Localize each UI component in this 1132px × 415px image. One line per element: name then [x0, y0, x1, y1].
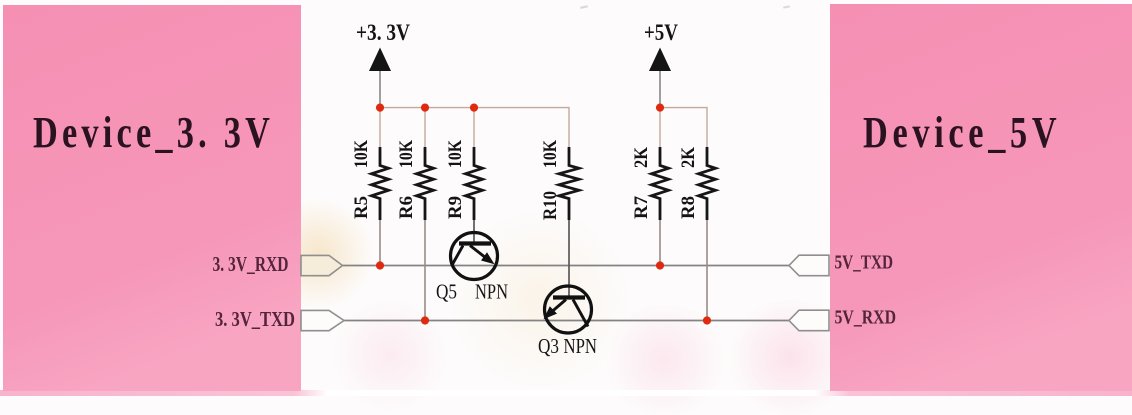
svg-text:R7: R7: [631, 196, 652, 219]
svg-text:10K: 10K: [351, 140, 372, 168]
svg-text:10K: 10K: [445, 140, 466, 168]
svg-text:2K: 2K: [631, 147, 652, 168]
svg-text:3. 3V_RXD: 3. 3V_RXD: [213, 252, 289, 276]
svg-text:10K: 10K: [540, 140, 561, 168]
svg-text:5V_RXD: 5V_RXD: [835, 307, 897, 329]
svg-text:+3. 3V: +3. 3V: [356, 20, 410, 45]
svg-text:R8: R8: [678, 196, 699, 219]
svg-text:Device_5V: Device_5V: [863, 108, 1061, 157]
svg-text:R10: R10: [540, 191, 561, 220]
svg-text:Q5: Q5: [436, 280, 457, 304]
svg-text:+5V: +5V: [644, 20, 678, 45]
svg-text:Q3: Q3: [538, 334, 559, 358]
svg-text:NPN: NPN: [564, 334, 598, 358]
svg-text:Device_3. 3V: Device_3. 3V: [33, 108, 274, 157]
svg-text:10K: 10K: [396, 140, 417, 168]
svg-text:2K: 2K: [678, 147, 699, 168]
svg-text:3. 3V_TXD: 3. 3V_TXD: [215, 307, 295, 331]
svg-text:5V_TXD: 5V_TXD: [835, 252, 894, 274]
svg-text:R9: R9: [445, 196, 466, 219]
svg-text:R5: R5: [351, 196, 372, 219]
svg-text:R6: R6: [396, 196, 417, 219]
svg-text:NPN: NPN: [475, 280, 508, 304]
